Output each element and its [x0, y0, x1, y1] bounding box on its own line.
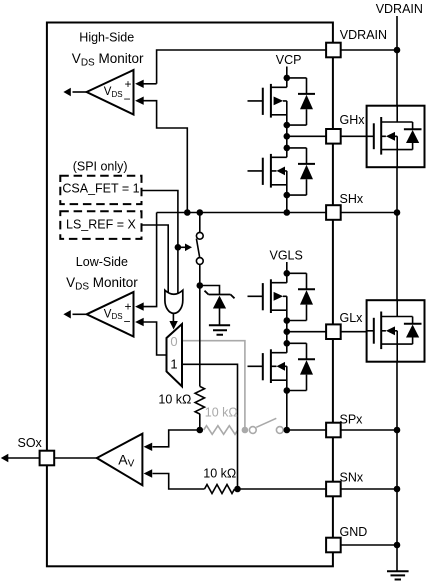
svg-text:+: +	[124, 77, 131, 91]
svg-text:0: 0	[170, 334, 177, 349]
svg-text:(SPI only): (SPI only)	[73, 159, 128, 173]
svg-text:VDS Monitor: VDS Monitor	[66, 275, 138, 293]
svg-text:GLx: GLx	[340, 311, 364, 325]
svg-text:1: 1	[170, 356, 177, 371]
svg-text:−: −	[123, 315, 130, 329]
svg-text:GND: GND	[340, 525, 368, 539]
svg-text:GHx: GHx	[340, 113, 366, 127]
svg-text:VDS Monitor: VDS Monitor	[72, 51, 144, 69]
svg-text:LS_REF = X: LS_REF = X	[66, 217, 136, 231]
svg-text:10 kΩ: 10 kΩ	[158, 393, 191, 407]
svg-text:10 kΩ: 10 kΩ	[205, 405, 238, 419]
svg-text:+: +	[124, 299, 131, 313]
svg-text:High-Side: High-Side	[79, 30, 134, 44]
svg-text:Low-Side: Low-Side	[76, 255, 128, 269]
svg-text:10 kΩ: 10 kΩ	[203, 466, 236, 480]
svg-text:SHx: SHx	[340, 192, 364, 206]
svg-text:VCP: VCP	[276, 53, 302, 67]
svg-text:VGLS: VGLS	[270, 248, 303, 262]
svg-text:VDRAIN: VDRAIN	[340, 28, 387, 42]
svg-text:SPx: SPx	[340, 413, 364, 427]
svg-text:VDRAIN: VDRAIN	[376, 2, 423, 16]
svg-text:SNx: SNx	[340, 470, 364, 484]
svg-text:CSA_FET = 1: CSA_FET = 1	[62, 182, 139, 196]
svg-text:−: −	[123, 92, 130, 106]
svg-text:SOx: SOx	[18, 436, 43, 450]
